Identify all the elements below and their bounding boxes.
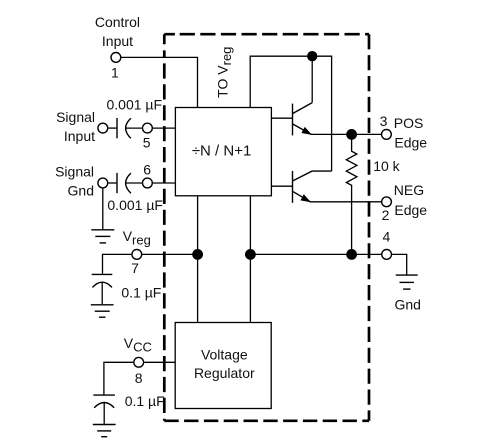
junction dot rail left (192, 249, 203, 260)
wire signal gnd to C2 (108, 182, 116, 184)
svg-text:Signal: Signal (56, 109, 95, 125)
svg-text:3: 3 (380, 113, 388, 129)
wire U1 bottom right to U2 top (249, 196, 251, 323)
pin 4 terminal (382, 250, 392, 260)
svg-text:Control: Control (95, 14, 140, 30)
svg-text:Edge: Edge (394, 135, 427, 151)
pin 3 terminal (382, 130, 392, 140)
wire pin8 to C4 (104, 362, 133, 394)
wire dot to Q1 collector (311, 56, 313, 102)
svg-text:Voltage: Voltage (201, 346, 248, 362)
voltage regulator block U2 (175, 323, 271, 409)
signal input terminal (98, 123, 108, 133)
IC boundary dashed box (164, 34, 369, 421)
svg-text:NEG: NEG (394, 182, 424, 198)
wire C4 to ground (103, 403, 105, 424)
svg-text:2: 2 (382, 207, 390, 223)
transistor Q2 (293, 171, 332, 203)
svg-text:0.001 µF: 0.001 µF (107, 197, 163, 213)
svg-text:Regulator: Regulator (194, 365, 255, 381)
svg-text:4: 4 (383, 228, 391, 244)
ground below signal gnd (91, 230, 114, 243)
pin 5 terminal (143, 123, 153, 133)
transistor Q1 base wire (271, 117, 292, 119)
resistor R1 10k (346, 140, 357, 255)
svg-text:0.001 µF: 0.001 µF (107, 96, 163, 112)
svg-text:0.1 µF: 0.1 µF (121, 284, 161, 300)
Q2 emitter arrow (301, 195, 309, 201)
wire Q2 emitter to pin2 (310, 201, 382, 203)
svg-text:Gnd: Gnd (68, 183, 94, 199)
svg-text:1: 1 (111, 64, 119, 80)
svg-text:0.1 µF: 0.1 µF (125, 393, 165, 409)
wire U1 bottom left to U2 top (197, 196, 199, 323)
Q1 emitter arrow (302, 128, 310, 134)
svg-text:Edge: Edge (394, 202, 427, 218)
svg-text:Signal: Signal (55, 164, 94, 180)
divider block U1 (175, 108, 271, 196)
svg-text:7: 7 (131, 260, 139, 276)
pin 6 terminal (143, 178, 153, 188)
wire rail pin7 segment (142, 253, 203, 255)
wire pin7 to C3 (103, 254, 132, 273)
svg-text:8: 8 (135, 370, 143, 386)
capacitor C4 0.1uF (93, 394, 115, 396)
svg-text:Gnd: Gnd (395, 297, 421, 313)
junction dot top rail (307, 51, 317, 61)
pin 7 terminal (132, 250, 142, 260)
capacitor C1 0.001uF (116, 118, 118, 138)
svg-text:Input: Input (102, 33, 133, 49)
ground below C3 (91, 305, 114, 317)
signal gnd terminal (98, 178, 108, 188)
wire C1 to pin5 (126, 127, 142, 129)
junction dot rail resistor (346, 249, 357, 260)
ground below C4 (93, 425, 116, 437)
wire C2 to pin6 (126, 182, 142, 184)
svg-text:6: 6 (143, 162, 151, 178)
capacitor C3 0.1uF (92, 273, 113, 275)
wire pin5 to U1 (153, 127, 175, 129)
wire pin1 to U1 top (122, 57, 198, 107)
capacitor C2 0.001uF (116, 173, 118, 193)
transistor Q2 base wire (271, 185, 292, 187)
svg-text:5: 5 (143, 135, 151, 151)
wire Q1 emitter to pin3 (311, 133, 382, 135)
wire signal input to C1 (108, 127, 116, 129)
wire C3 to ground (101, 282, 103, 304)
svg-text:÷N / N+1: ÷N / N+1 (192, 142, 252, 159)
pin 8 terminal (134, 357, 144, 367)
transistor Q1 (293, 103, 313, 136)
svg-text:Input: Input (64, 128, 95, 144)
svg-text:POS: POS (394, 115, 424, 131)
junction dot rail mid (245, 249, 256, 260)
wire pin4 to ground (392, 254, 407, 274)
ground at pin4 (396, 275, 418, 289)
junction dot POS node (346, 129, 357, 140)
pin 2 terminal (382, 197, 392, 207)
wire rail right segment (250, 253, 381, 255)
wire signal gnd down to ground (102, 189, 104, 230)
pin 1 terminal (111, 53, 121, 63)
wire pin6 to U1 (153, 182, 175, 184)
wire U1 top to collector rail (250, 56, 331, 171)
wire pin8 to U2 (144, 361, 175, 363)
svg-text:10 k: 10 k (373, 158, 400, 174)
